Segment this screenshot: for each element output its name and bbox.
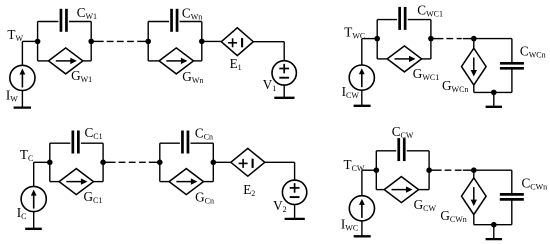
controlled source G_WCn — [462, 48, 487, 85]
dashed wire loop CW to G_CWn — [429, 169, 442, 171]
junction dot loop Cn right — [211, 160, 217, 166]
controlled source G_C1 — [59, 169, 93, 195]
svg-text:CWCn: CWCn — [520, 43, 546, 59]
ground under I_W — [14, 106, 31, 108]
controlled source G_Wn arrow — [166, 60, 182, 62]
wire node T_C horizontal — [34, 161, 50, 163]
dependent source E_1 plus-one — [228, 42, 237, 44]
current source I_W — [10, 65, 35, 90]
wire T_CW to I_WC — [361, 170, 363, 196]
svg-text:TC: TC — [20, 147, 33, 163]
wire loop WC1 top left — [377, 19, 397, 21]
wire loop WC1 bottom right stub — [422, 58, 431, 60]
wire loop WC1 right vertical — [430, 20, 432, 59]
wire loop Cn left vertical — [159, 143, 161, 181]
ground under V_1 — [274, 97, 294, 99]
junction dot G_CWn top node — [471, 167, 477, 173]
svg-text:GCW: GCW — [414, 197, 437, 213]
dashed wire loop W1 to loop Wn — [91, 40, 104, 42]
wire E_2 to V_2 vertical — [294, 162, 296, 180]
wire loop W1 top left — [38, 21, 59, 23]
controlled source G_WC1 — [387, 46, 421, 72]
wire loop Wn bottom left stub — [148, 60, 159, 62]
wire loop Wn bottom right stub — [194, 60, 202, 62]
junction dot node T_CW / loop CW left — [374, 167, 380, 173]
svg-text:CWn: CWn — [182, 6, 202, 22]
wire loop CW top right — [407, 150, 429, 152]
wire E_1 to V_1 horizontal — [253, 41, 284, 43]
controlled source G_W1 arrow — [56, 60, 72, 62]
wire I_CW to ground — [361, 90, 363, 106]
svg-text:CWC1: CWC1 — [417, 2, 443, 18]
wire bottom rail WC — [474, 91, 512, 93]
controlled source G_C1 arrow — [66, 181, 82, 183]
svg-text:GW1: GW1 — [71, 68, 92, 84]
wire bottom rail CW — [474, 224, 512, 226]
svg-text:E1: E1 — [230, 56, 242, 72]
junction dot loop Wn left — [145, 39, 151, 45]
svg-text:E2: E2 — [243, 182, 255, 198]
dashed wire loop C1 to loop Cn — [103, 161, 116, 163]
wire loop CW left vertical — [375, 151, 377, 190]
svg-text:CCn: CCn — [195, 126, 213, 142]
wire loop Cn bottom left stub — [160, 181, 169, 183]
junction dot bottom rail WC — [491, 90, 497, 96]
svg-text:TW: TW — [7, 27, 23, 43]
controlled source G_CWn — [462, 178, 487, 215]
wire C_WCn lower vertical — [511, 68, 513, 92]
controlled source G_CWn arrow — [473, 187, 475, 201]
wire loop C1 top left — [50, 142, 71, 144]
wire loop CW bottom right stub — [418, 189, 429, 191]
capacitor C_CWn — [500, 193, 524, 196]
junction dot bottom rail CW — [491, 222, 497, 228]
wire V_1 to ground — [283, 85, 285, 98]
wire top rail to C_WCn — [474, 38, 512, 40]
ground under CW rail — [493, 225, 495, 239]
wire G_WCn to bottom rail — [473, 85, 475, 92]
wire loop Cn top right — [191, 142, 214, 144]
junction dot loop Wn right — [199, 39, 205, 45]
wire loop C1 bottom right stub — [93, 181, 103, 183]
junction dot node T_C / loop C1 left — [47, 160, 53, 166]
wire I_C to ground — [33, 212, 35, 229]
svg-text:CC1: CC1 — [85, 125, 103, 141]
wire T_WC to I_CW — [361, 39, 363, 65]
wire loop Cn top left — [160, 142, 180, 144]
capacitor C_C1 — [71, 131, 74, 154]
junction dot loop W1 right — [88, 39, 94, 45]
dependent source E_2 — [231, 148, 265, 176]
wire C_WCn upper vertical — [511, 39, 513, 64]
svg-text:CW1: CW1 — [77, 5, 97, 21]
wire loop WC1 left vertical — [376, 20, 378, 59]
ground under V_2 — [285, 218, 305, 220]
svg-text:GCWn: GCWn — [440, 208, 466, 224]
wire loop W1 right vertical — [90, 22, 92, 61]
wire loop CW bottom left stub — [376, 189, 384, 191]
svg-text:GWn: GWn — [182, 69, 203, 85]
capacitor C_WCn — [500, 62, 524, 65]
wire V_2 to ground — [294, 205, 296, 219]
ground under I_WC — [354, 235, 371, 237]
junction dot node T_W / loop W1 left — [35, 39, 41, 45]
capacitor C_CW — [397, 138, 400, 161]
svg-text:GCn: GCn — [195, 190, 214, 206]
wire loop W1 left vertical — [37, 22, 39, 61]
wire loop WC1 top right — [408, 19, 431, 21]
controlled source G_CW arrow — [392, 189, 408, 191]
svg-text:CCW: CCW — [392, 124, 414, 140]
wire loop C1 bottom left stub — [50, 181, 59, 183]
wire loop C1 top right — [81, 142, 103, 144]
controlled source G_Cn arrow — [176, 181, 192, 183]
controlled source G_CW — [384, 177, 418, 203]
junction dot G_WCn top node — [471, 36, 477, 42]
wire loop Cn bottom right stub — [203, 181, 213, 183]
wire node T_W horizontal — [22, 40, 37, 42]
capacitor C_WC1 — [398, 7, 401, 30]
wire loop Wn left vertical — [147, 22, 149, 61]
dependent source E_1 — [221, 28, 253, 56]
wire loop Wn top left — [148, 21, 169, 23]
wire G_CWn to bottom rail — [473, 214, 475, 224]
current source I_WC — [349, 196, 374, 221]
wire loop Wn to E_1 — [202, 40, 222, 42]
junction dot loop Cn left — [157, 160, 163, 166]
wire loop Wn top right — [180, 21, 202, 23]
wire I_W to ground — [21, 91, 23, 108]
wire loop CW right vertical — [428, 151, 430, 190]
dependent source E_2 plus-one — [239, 162, 248, 164]
wire I_WC to ground — [361, 221, 363, 236]
capacitor C_Cn — [181, 131, 184, 154]
wire top rail to C_CWn — [474, 169, 512, 171]
svg-text:GC1: GC1 — [84, 189, 103, 205]
controlled source G_W1 — [49, 48, 83, 74]
ground under WC rail — [493, 92, 495, 106]
wire loop Cn to E_2 — [213, 161, 231, 163]
wire loop Cn right vertical — [212, 143, 214, 181]
controlled source G_WC1 arrow — [395, 58, 411, 60]
wire loop WC1 bottom left stub — [377, 58, 387, 60]
controlled source G_WCn arrow — [473, 58, 475, 72]
wire loop C1 left vertical — [49, 143, 51, 181]
wire C_CWn lower vertical — [511, 199, 513, 225]
capacitor C_W1 — [60, 9, 63, 32]
wire node to G_WCn — [473, 39, 475, 49]
wire E_2 to V_2 horizontal — [265, 161, 295, 163]
controlled source G_Wn — [159, 48, 193, 74]
junction dot loop WC1 right — [428, 36, 434, 42]
wire node T_WC horizontal — [362, 38, 377, 40]
wire loop W1 bottom left stub — [38, 60, 49, 62]
dashed wire loop WC1 to G_WCn — [431, 38, 444, 40]
capacitor C_Wn — [170, 9, 173, 32]
wire node to G_CWn — [473, 170, 475, 178]
wire C_CWn upper vertical — [511, 170, 513, 194]
current source I_CW — [349, 65, 374, 90]
wire T_W to I_W — [21, 41, 23, 65]
svg-text:GWCn: GWCn — [442, 78, 468, 94]
svg-text:CCWn: CCWn — [522, 175, 548, 191]
wire node T_CW horizontal — [362, 169, 376, 171]
voltage source V_2 — [282, 180, 306, 204]
wire loop W1 top right — [69, 21, 91, 23]
junction dot loop C1 right — [100, 160, 106, 166]
ground under I_CW — [354, 105, 371, 107]
wire loop Wn right vertical — [201, 22, 203, 61]
voltage source V_1 — [272, 61, 296, 85]
ground under I_C — [25, 228, 42, 230]
wire loop C1 right vertical — [102, 143, 104, 181]
controlled source G_Cn — [169, 169, 203, 195]
junction dot loop CW right — [426, 167, 432, 173]
svg-text:GWC1: GWC1 — [413, 66, 439, 82]
wire E_1 to V_1 vertical — [283, 42, 285, 61]
current source I_C — [21, 186, 46, 211]
wire loop CW top left — [376, 150, 396, 152]
junction dot node T_WC / loop WC1 left — [374, 36, 380, 42]
wire T_C to I_C — [33, 162, 35, 186]
wire loop W1 bottom right stub — [83, 60, 91, 62]
